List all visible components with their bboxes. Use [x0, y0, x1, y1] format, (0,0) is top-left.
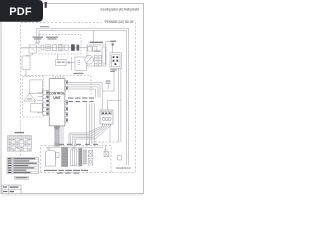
socket wire 1 — [102, 68, 114, 91]
side marks — [105, 81, 110, 84]
page sheet — [1, 4, 144, 194]
charger box — [71, 57, 86, 70]
boiler cylinder — [46, 150, 56, 166]
breaker MCB1 — [65, 45, 69, 50]
separator dashed — [21, 75, 91, 77]
charger label — [74, 73, 84, 74]
socket wire 3 — [120, 68, 122, 142]
svg-text:UNIT: UNIT — [53, 96, 60, 100]
svg-text:PDF: PDF — [9, 6, 32, 18]
dist sub box 1 — [88, 47, 92, 51]
calorifier label — [65, 170, 72, 171]
fuse table — [8, 136, 32, 151]
lower dashed box — [41, 146, 111, 173]
panel dial 2 — [105, 117, 108, 120]
separator dashed corner — [90, 76, 92, 97]
dist strip 1 — [95, 47, 106, 66]
starter box — [104, 146, 109, 157]
control unit — [49, 79, 65, 126]
cluster top labels — [59, 144, 98, 145]
trunk gland — [54, 126, 61, 130]
striped bar 3 — [83, 150, 86, 164]
logo mark — [45, 2, 47, 8]
termination ticks — [36, 42, 41, 44]
wire sockets right — [66, 61, 75, 64]
horn cluster dashed box — [23, 77, 44, 117]
generator circle — [85, 55, 94, 64]
load drop wires — [87, 100, 121, 146]
panel — [100, 110, 113, 124]
cluster bottom labels — [57, 173, 79, 174]
hook-up label — [111, 41, 117, 42]
frame connector — [118, 156, 122, 161]
mains label 1 — [33, 37, 44, 40]
horn to aerial wire — [34, 101, 36, 104]
hatched bar 2 — [79, 149, 82, 167]
wire border to A — [21, 47, 29, 49]
distribution box — [87, 45, 106, 66]
boiler vent — [48, 148, 50, 150]
RCD dark — [71, 44, 75, 51]
dist strip 2 — [99, 55, 102, 66]
left box C — [22, 56, 30, 70]
hook-up to dist wire — [106, 42, 113, 45]
horn body — [30, 80, 43, 94]
svg-text:“PENNINE (UK) BD-05”: “PENNINE (UK) BD-05” — [104, 20, 135, 24]
transformer T1 — [59, 45, 64, 51]
boiler fitting — [56, 153, 60, 158]
panel feed — [108, 100, 121, 110]
hook-up line to socket — [112, 47, 114, 53]
panel fan wires — [69, 124, 111, 146]
wire C down — [25, 70, 27, 77]
left box A — [29, 45, 37, 53]
inner double frame outer line — [37, 28, 129, 165]
mains label 2 — [46, 37, 58, 40]
note strip — [15, 176, 29, 179]
legend table — [7, 158, 39, 174]
panel pins — [103, 124, 111, 126]
sockets box — [56, 60, 67, 66]
socket label — [111, 69, 118, 72]
mains section dashed box — [39, 35, 81, 55]
svg-text:Grounding System (AC) Floating: Grounding System (AC) Floating Neutral — [101, 7, 140, 11]
title block table — [2, 185, 21, 194]
horn label — [27, 98, 32, 99]
hook-up plug — [111, 44, 114, 47]
panel dial 3 — [108, 117, 111, 120]
upper dashed line right — [88, 141, 120, 143]
horn cone — [24, 93, 36, 101]
trunk bundle — [55, 126, 59, 146]
sockets feed — [57, 54, 59, 60]
PDF badge — [0, 0, 43, 22]
panel dial 1 — [102, 117, 105, 120]
supply fuse F1 — [46, 45, 51, 51]
cluster bus wire — [46, 146, 103, 148]
page background — [0, 0, 149, 198]
main switch dark — [77, 45, 80, 51]
sockets label — [57, 62, 65, 63]
control unit right pins — [65, 81, 68, 123]
outer dashed frame — [21, 23, 136, 173]
trunk end cap — [54, 143, 59, 146]
title line 2 bg — [102, 19, 133, 24]
bar labels — [73, 170, 88, 171]
control unit right wires — [68, 83, 103, 110]
control unit bottom wires — [61, 126, 63, 146]
socket wire 2 — [117, 68, 119, 142]
wire A to C — [26, 53, 33, 56]
control unit top wires — [53, 76, 63, 79]
inner double frame inner line — [39, 31, 127, 166]
calorifier — [71, 147, 77, 166]
load labels row — [68, 98, 94, 103]
relay stack — [88, 151, 93, 166]
socket pins — [113, 56, 119, 65]
fuse table header — [14, 132, 24, 133]
supply meter M1 — [41, 45, 44, 50]
supply isolator S1 — [52, 45, 57, 51]
dist feed wire — [92, 31, 94, 46]
control unit left connector — [43, 90, 49, 115]
heater hatched bar — [62, 148, 68, 167]
panel label strip — [101, 112, 112, 115]
mains wire — [21, 47, 87, 49]
aerial box — [31, 104, 43, 113]
inlet label — [40, 26, 49, 27]
dist terminal strip — [102, 47, 105, 64]
socket outer — [110, 53, 122, 68]
boiler label — [44, 170, 57, 171]
heater label — [59, 170, 65, 171]
page shadow — [2, 194, 144, 196]
dist sub box 2 — [93, 47, 97, 51]
distribution box label — [90, 42, 104, 43]
control unit left wires — [38, 92, 43, 113]
svg-text:CONTROL: CONTROL — [49, 91, 65, 95]
socket inner — [112, 55, 121, 67]
svg-text:ENGINE BLOCK: ENGINE BLOCK — [116, 166, 131, 170]
